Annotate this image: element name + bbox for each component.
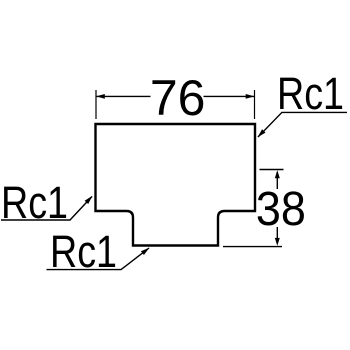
dimension 38 lower arrowhead (275, 238, 280, 246)
leader line Rc1 top-right (258, 112, 347, 137)
dimension 38 top extension tick (260, 169, 284, 171)
dimension 76 line right segment (204, 95, 255, 97)
dimension 76 arrowhead left (96, 94, 105, 99)
leader arrowhead Rc1 top-right (258, 129, 266, 137)
leader line Rc1 bottom (47, 248, 150, 270)
dimension 38 bottom extension line (223, 246, 282, 248)
dimension 38 upper arrowhead (275, 170, 280, 178)
dimension 76 extension line left (95, 90, 97, 119)
dimension 76 arrowhead right (246, 94, 255, 99)
dimension 38 upper arrow stem (276, 172, 278, 189)
tee fitting body outline (96, 124, 256, 246)
leader arrowhead Rc1 left (85, 196, 93, 204)
leader line Rc1 left (1, 197, 92, 221)
dimension 38 lower arrow stem (276, 227, 278, 243)
dimension 76 extension line right (254, 90, 256, 119)
svg-text:Rc1: Rc1 (277, 68, 344, 119)
leader arrowhead Rc1 bottom (141, 248, 150, 255)
svg-text:76: 76 (150, 70, 206, 126)
svg-text:38: 38 (256, 183, 306, 236)
dimension 76 line left segment (96, 95, 151, 97)
